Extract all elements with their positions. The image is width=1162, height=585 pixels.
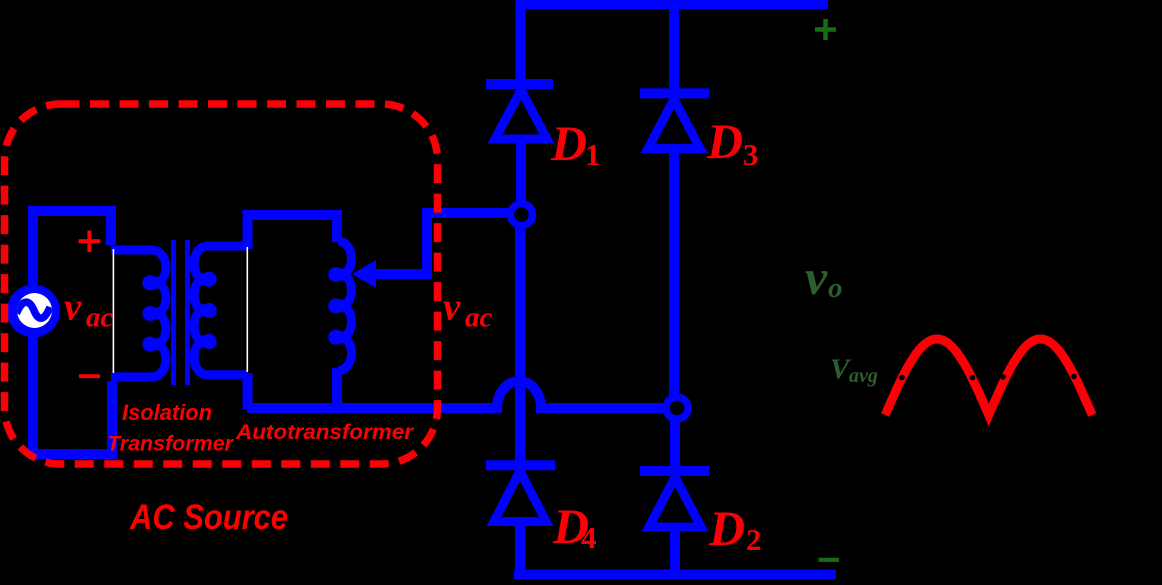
autotransformer tap arrowhead	[352, 260, 376, 288]
wire: D4 triangle base down to bottom bus	[515, 521, 525, 576]
svg-text:v: v	[64, 286, 82, 329]
wire: node N1 to autotransformer tap (down and left to arrow)	[373, 213, 513, 274]
svg-text:ac: ac	[86, 302, 114, 334]
svg-text:avg: avg	[849, 365, 878, 387]
diode D1 cathode bar	[486, 79, 553, 89]
wire: vertical from node N1 down to D4	[515, 222, 525, 461]
svg-text:v: v	[805, 249, 828, 305]
node N1 (junction circle)	[511, 204, 533, 226]
svg-text:Isolation: Isolation	[122, 400, 212, 425]
svg-text:v: v	[443, 286, 461, 329]
wire: secondary bottom rail with crossover hop to node N2	[247, 381, 667, 408]
autotransformer winding	[333, 241, 352, 371]
wire: D2 triangle base down to bottom bus	[670, 527, 680, 576]
isolation transformer primary winding	[111, 250, 166, 377]
ac voltage source circle	[7, 285, 60, 338]
diode D3 cathode bar	[640, 88, 709, 98]
wire: autotransformer bottom leg	[332, 368, 342, 409]
svg-text:ac: ac	[465, 302, 493, 334]
wire: bottom negative bus	[514, 570, 836, 580]
wire: D3 riser from top bus	[669, 0, 679, 89]
output rectified waveform	[885, 339, 1092, 415]
wire: source top loop to primary	[33, 211, 111, 287]
svg-text:Autotransformer: Autotransformer	[235, 421, 415, 444]
isolation transformer secondary winding	[194, 246, 247, 375]
svg-text:Transformer: Transformer	[107, 432, 235, 456]
svg-text:D: D	[550, 115, 587, 171]
svg-text:AC Source: AC Source	[129, 498, 288, 537]
isolation transformer secondary terminal line (white)	[246, 247, 248, 372]
minus sign at source (red)	[79, 374, 100, 378]
ac voltage source inner white disc	[17, 293, 52, 328]
wire: top positive bus	[516, 0, 828, 9]
wire: D1 triangle base to node N1	[516, 138, 526, 206]
output plus terminal (green)	[815, 19, 836, 40]
svg-text:1: 1	[585, 137, 601, 172]
ac voltage source sine symbol	[17, 302, 51, 318]
svg-text:o: o	[828, 272, 843, 304]
diode D3 triangle	[648, 99, 700, 149]
svg-text:D: D	[708, 500, 745, 556]
wire: D1 anode riser from top bus	[516, 0, 526, 80]
svg-text:4: 4	[581, 520, 597, 555]
AC source boundary (red dashed rounded box)	[5, 104, 438, 464]
isolation transformer core	[174, 240, 188, 385]
diode D4 triangle	[494, 471, 546, 522]
wire: secondary top terminal up and right to autotransformer top	[248, 215, 338, 249]
wire: source bottom loop to primary	[33, 334, 112, 454]
svg-text:2: 2	[746, 522, 762, 557]
node N2 (junction circle)	[666, 397, 688, 419]
V_avg level dashed line (black dots visible on waveform)	[899, 374, 1077, 381]
diode D2 triangle	[649, 477, 701, 527]
output minus terminal (green)	[819, 558, 840, 562]
diode D4 cathode bar	[486, 460, 555, 470]
svg-text:D: D	[706, 113, 743, 169]
diode D2 cathode bar	[640, 466, 709, 476]
wire: D3 triangle base down to node N2	[669, 148, 679, 400]
wire: node N2 down to D2 bar	[670, 416, 680, 466]
isolation transformer primary terminal line (white)	[112, 249, 114, 373]
wire: secondary bottom terminal drop	[243, 373, 253, 409]
diode D1 triangle	[495, 90, 547, 139]
svg-text:3: 3	[743, 137, 759, 172]
plus sign at source (red)	[79, 231, 101, 253]
